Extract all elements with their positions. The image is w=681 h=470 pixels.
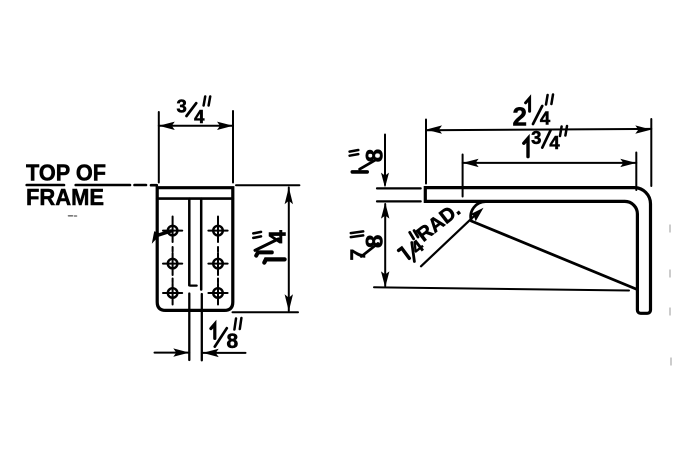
dimension 2 1/4 line <box>426 129 651 130</box>
hole column centerline right <box>217 217 219 305</box>
slash 1 1/4 (global orientation) <box>255 239 279 251</box>
fillet radius arc <box>471 202 487 221</box>
arrowhead right <box>620 159 636 167</box>
arrowhead down <box>381 271 389 287</box>
slash 1/8 (global orientation) <box>360 159 377 169</box>
frame edge extension lines <box>377 188 421 201</box>
slash 7/8 (global orientation) <box>361 243 378 256</box>
svg-text:TOP OF: TOP OF <box>26 160 106 186</box>
paper specks <box>69 215 77 217</box>
slot extension line left <box>188 294 190 361</box>
slot right line <box>200 199 203 290</box>
hole column centerline left <box>172 217 174 305</box>
arrowhead right <box>217 122 233 130</box>
text 1 1/4 rotated digits <box>264 230 291 244</box>
flange bend line <box>157 197 233 200</box>
dimension 3/4 line <box>159 125 233 127</box>
arrowhead down <box>381 173 389 188</box>
dimension 1 3/4 extension lines <box>463 153 637 197</box>
text 1/8 <box>211 324 239 353</box>
bracket side outline <box>425 188 650 314</box>
dimension 1/8 thickness line <box>384 135 386 186</box>
slash 1/4 rad (steep global orientation) <box>412 243 415 262</box>
digit 1 bar (1/4 rad) <box>399 248 410 258</box>
faint scan dashes right margin <box>670 225 671 365</box>
svg-text:4: 4 <box>264 230 291 244</box>
arrowhead down <box>285 294 293 311</box>
arrowhead left-pointing <box>203 349 219 357</box>
hole A1 <box>168 226 178 236</box>
svg-text:FRAME: FRAME <box>26 184 104 210</box>
text 1/4 RAD. rotated <box>403 199 468 258</box>
text 3/4 <box>177 96 206 128</box>
inch marks 7/8 (rotated) <box>351 231 363 237</box>
arrowhead left <box>426 125 442 133</box>
dimension 1/8 slot lines <box>155 352 246 354</box>
label TOP OF FRAME <box>26 160 106 211</box>
inch marks 1 1/4 (rotated) <box>253 232 261 238</box>
slot extension line right <box>201 294 203 360</box>
svg-text:4: 4 <box>549 132 560 153</box>
dimension 2 1/4 extension lines <box>426 119 651 186</box>
arrowhead right <box>635 125 651 133</box>
arrowhead left <box>463 159 479 167</box>
hole B2 <box>213 259 223 269</box>
arrowhead up <box>285 187 293 204</box>
inch marks 1/8 (rotated) <box>350 150 359 156</box>
slot left line <box>188 199 191 286</box>
hole B1 <box>213 226 223 236</box>
text 1/8 rotated digits <box>362 149 389 162</box>
inch marks 1/4 rad <box>410 231 418 239</box>
hole A2 <box>168 259 178 269</box>
dimension 3/4 extension lines <box>159 111 233 183</box>
dimension 1 1/4 line <box>288 188 290 311</box>
centerline: top of frame (underline + dash-dot to bracket) <box>27 184 157 187</box>
text 2 1/4 <box>512 98 550 131</box>
digit 1 (numerator) bar <box>256 252 272 255</box>
bracket front outline <box>157 188 233 311</box>
gusset line <box>471 221 636 289</box>
hole A3 <box>168 288 178 298</box>
leader mark to hole A1 <box>157 231 171 236</box>
svg-text:7: 7 <box>347 249 370 261</box>
svg-text:4: 4 <box>540 108 551 129</box>
arrowhead right-pointing <box>173 348 189 356</box>
digit 1 (whole) bar <box>264 259 284 262</box>
hole B3 <box>213 288 223 298</box>
slot break dash <box>190 284 197 286</box>
dimension 7/8 line <box>384 204 386 286</box>
inch marks 3/4 <box>204 97 211 106</box>
svg-text:3: 3 <box>177 96 187 117</box>
bottom extension line (7/8 base) <box>374 287 629 290</box>
dimension 1 1/4 extension lines <box>233 185 300 312</box>
leader for 1/4 RAD <box>421 212 478 266</box>
text 7/8 rotated digits <box>347 235 389 261</box>
svg-text:3: 3 <box>531 127 541 148</box>
arrowhead left <box>159 122 175 130</box>
svg-text:2: 2 <box>512 102 526 132</box>
svg-text:8: 8 <box>227 330 239 353</box>
arrowhead up <box>381 203 389 219</box>
svg-text:4: 4 <box>194 106 205 127</box>
text 1 3/4 <box>524 127 561 157</box>
digit 1 bar (1/8 thickness) <box>352 170 367 174</box>
dimension 1 3/4 line <box>463 162 637 164</box>
